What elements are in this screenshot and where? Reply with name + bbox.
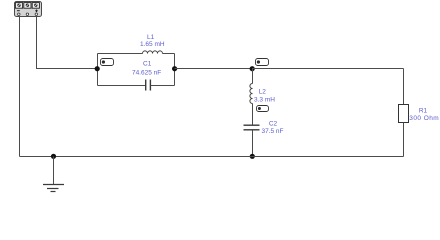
wire right edge down to R1	[403, 69, 405, 105]
capacitor C2	[244, 125, 260, 130]
capacitor C1	[146, 80, 151, 91]
wire L2 to C2	[252, 104, 254, 125]
wire R1 to bottom rail	[403, 123, 405, 157]
probe tag 1	[101, 59, 114, 66]
pin pads	[18, 13, 20, 15]
svg-text:L2: L2	[259, 89, 267, 96]
resistor R1	[399, 105, 409, 123]
wire node 2 down to L2	[252, 69, 254, 84]
junction tank output	[172, 66, 177, 71]
wire C2 to bottom rail	[252, 130, 254, 156]
wire ground stub	[53, 157, 55, 185]
wire pin3 down to top rail	[36, 16, 38, 69]
svg-text:C2: C2	[269, 120, 278, 127]
junction tank input	[95, 66, 100, 71]
svg-text:37.5 nF: 37.5 nF	[261, 128, 283, 135]
wire tank top right	[163, 53, 175, 55]
probe tag 2	[256, 59, 269, 66]
pin 3 plus mark	[35, 10, 38, 12]
wire bottom rail	[20, 156, 404, 158]
connector J1	[15, 2, 42, 17]
wire tank to node 2	[175, 68, 253, 70]
svg-text:74.625 nF: 74.625 nF	[132, 70, 161, 77]
junction C2 rail	[250, 154, 255, 159]
inductor L1	[143, 51, 163, 54]
svg-text:R1: R1	[419, 107, 428, 114]
wire node 2 to right edge	[252, 68, 404, 70]
ground	[43, 185, 64, 192]
inductor L2	[250, 84, 253, 104]
svg-text:300 Ohm: 300 Ohm	[409, 115, 439, 122]
junction ground	[51, 154, 56, 159]
wire tank top left	[98, 53, 143, 55]
svg-text:1.65 mH: 1.65 mH	[140, 41, 165, 48]
probe tag 3	[257, 106, 269, 112]
wire pin1 down to bottom rail	[19, 16, 21, 157]
wire input to tank	[36, 68, 97, 70]
svg-text:C1: C1	[143, 61, 152, 68]
wire tank left edge	[97, 54, 99, 86]
pin 1 minus mark	[17, 10, 20, 12]
wire tank bottom right	[151, 85, 175, 87]
svg-text:3.3 mH: 3.3 mH	[254, 97, 275, 104]
svg-text:L1: L1	[147, 34, 155, 41]
wire tank bottom left	[98, 85, 146, 87]
wire tank right edge	[174, 54, 176, 86]
junction node 2	[250, 66, 255, 71]
